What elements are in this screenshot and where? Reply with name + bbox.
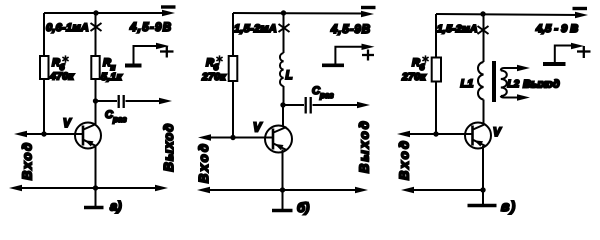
wire: Rn to collector node (a) [95,79,97,124]
wire: primary bottom to collector (c) [483,100,485,125]
svg-text:470к: 470к [49,71,74,83]
svg-text:4,5 - 9 В: 4,5 - 9 В [535,23,578,35]
measurement cross on wire (a) [91,23,102,31]
svg-text:б): б) [297,200,309,215]
battery minus terminal (b) [361,6,376,9]
svg-text:270к: 270к [401,71,426,83]
transformer core (c) [492,61,496,102]
node: collector output junction (b) [280,102,285,107]
wire: battery positive bracket (a) [134,46,161,64]
svg-text:Вход: Вход [397,139,412,180]
svg-text:раз: раз [112,115,126,124]
wire: battery positive bracket (c) [555,46,577,63]
wire: top supply rail (b) [233,12,367,15]
svg-text:а): а) [110,199,122,214]
node: junction of Rn branch with top rail (a) [93,10,98,15]
wire: secondary top lead with arrow (c) [501,68,523,71]
wire: top supply rail (a) [44,12,168,14]
transistor V (a) [75,123,101,149]
node: emitter junction with bottom rail (a) [93,185,98,190]
transistor V (b) [265,126,292,153]
battery plus sign (a) [160,46,174,58]
resistor Rb 270k (b) [229,56,238,81]
battery minus terminal (a) [161,5,176,8]
transformer secondary coil L2 (c) [501,71,507,97]
wire: right branch rail to Rn (a) [95,13,97,56]
svg-text:5,1к: 5,1к [101,71,122,83]
transistor V (c) [465,123,491,149]
node: emitter junction with bottom rail (c) [480,187,485,192]
battery minus terminal (c) [573,7,588,10]
wire: bottom common rail (c) [408,189,483,191]
node: collector output junction (a) [93,98,98,103]
svg-text:L2: L2 [508,79,520,90]
svg-text:4,5-9В: 4,5-9В [330,24,371,36]
wire: emitter down to bottom rail (b) [282,150,284,191]
wire: collector to node (b) [282,105,284,127]
svg-text:V: V [493,127,502,139]
svg-text:Выход: Выход [523,79,560,91]
transformer primary wire from rail (c) [483,14,485,62]
svg-text:в): в) [501,198,516,214]
measurement cross on wire (c) [478,26,489,34]
svg-text:L1: L1 [461,78,474,90]
transformer primary coil L1 (c) [478,62,484,100]
wire: collector node to capacitor (a) [96,100,118,102]
svg-text:270к: 270к [201,71,226,83]
wire: bottom common rail (a) [16,187,161,189]
node: base junction with Rb branch (a) [41,131,46,136]
svg-text:Выход: Выход [161,123,176,172]
svg-text:Выход: Выход [357,119,372,173]
wire: emitter down to bottom rail (a) [95,146,97,188]
wire: collector node to capacitor (b) [283,104,304,106]
wire: battery positive bracket (b) [335,47,363,64]
node: junction of transformer branch with top rail (c) [480,11,485,16]
inductor L wire from rail (b) [283,13,285,53]
wire: secondary bottom lead with arrow (c) [501,96,523,98]
node: junction of L branch with top rail (b) [281,10,286,15]
battery plus sign (b) [362,50,374,61]
wire: base input wire (b) [205,137,272,139]
node: base junction with Rb branch (c) [433,131,438,136]
ground under emitter (a) [95,188,97,206]
ground under emitter (b) [282,190,284,209]
battery plus sign (c) [577,46,591,58]
wire: capacitor to output arrow (b) [313,104,364,106]
battery positive bracket ground (c) [543,62,566,66]
wire: base input wire (c) [404,133,472,135]
svg-text:1,5-2мА: 1,5-2мА [234,23,277,35]
wire: left branch from rail to base node (b) [232,13,234,138]
wire: emitter down to bottom rail (c) [482,146,484,190]
wire: bottom common rail (b) [204,189,361,191]
svg-text:L: L [286,70,293,82]
capacitor Craz (a) [119,95,124,108]
wire: left branch from rail to base node (c) [435,14,437,134]
battery positive bracket ground (b) [322,64,344,68]
inductor L coil (b) [280,53,284,86]
wire: top supply rail (c) [436,14,581,15]
wire: coil to collector node (b) [283,86,285,105]
resistor Rb 470k (a) [40,56,49,79]
capacitor Craz (b) [306,97,311,114]
wire: left branch from rail to base node (a) [43,13,45,134]
ground under emitter (c) [482,190,484,204]
wire: capacitor to output arrow (a) [126,100,166,102]
svg-text:Вход: Вход [20,141,35,180]
node: base junction with Rb branch (b) [230,135,235,140]
wire: base input wire (a) [21,133,82,135]
svg-text:1,5-2мА: 1,5-2мА [437,23,478,35]
svg-text:0,6-1мА: 0,6-1мА [46,22,89,34]
resistor Rb 270k (c) [432,58,441,82]
measurement cross on wire (b) [279,24,290,32]
svg-text:Вход: Вход [196,142,211,183]
svg-text:раз: раз [319,91,333,100]
svg-text:V: V [253,121,263,135]
svg-text:V: V [63,118,72,130]
battery positive bracket ground (a) [125,64,142,68]
svg-text:4,5-9В: 4,5-9В [129,22,172,34]
node: emitter junction with bottom rail (b) [280,187,285,192]
resistor Rn 5,1k (a) [91,56,99,79]
